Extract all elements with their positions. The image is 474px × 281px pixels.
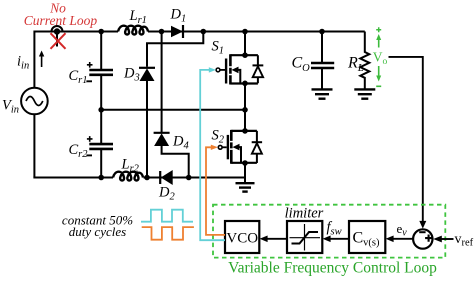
diode D4 [154, 133, 189, 178]
svg-text:VCO: VCO [226, 231, 258, 247]
body diode of S2 [252, 131, 262, 163]
node S2 top [242, 128, 248, 134]
arrow summing to Cv(s) [390, 238, 413, 240]
svg-text:duty cycles: duty cycles [69, 224, 126, 239]
body diode of S1 [253, 55, 264, 83]
polarity - Cr2 [86, 154, 92, 156]
transistor S1 (MOSFET) [216, 54, 258, 84]
diode D1 [171, 25, 183, 38]
polarity - Cr1 [86, 80, 92, 82]
node hop arc at no-loop stub [52, 26, 63, 31]
svg-text:Variable Frequency Control Loo: Variable Frequency Control Loop [228, 260, 437, 277]
wire midpoint to half-bridge [101, 109, 245, 111]
polarity + Cr2 [87, 136, 93, 142]
ground at RL [354, 89, 375, 98]
wire D4 cathode column [161, 32, 163, 133]
diode D3 [139, 68, 155, 178]
capacitor Cr1 [89, 32, 113, 145]
node S1 top [242, 52, 248, 58]
wire S1 drain [244, 32, 246, 56]
node S2 bottom [242, 160, 248, 166]
waveform cyan S1 [141, 210, 193, 222]
wire top rail left segment [34, 31, 118, 33]
arrow Cv(s) to limiter [327, 238, 349, 240]
wire jog from D1 cathode down to D3 cathode [147, 32, 203, 67]
arrow limiter to VCO [264, 238, 287, 240]
diode D2 [160, 170, 173, 185]
wire top rail middle segment [148, 31, 365, 33]
source Vin (AC) [21, 88, 48, 115]
capacitor Cr2 [89, 144, 113, 177]
node at D1 cathode jog [201, 29, 207, 35]
block Cv(s) [349, 221, 385, 253]
ground at Co [312, 89, 333, 98]
block VCO [225, 221, 259, 253]
transistor S2 (MOSFET) [218, 130, 257, 164]
node at caps midpoint [98, 107, 104, 113]
wire feedback from Vo to summing [389, 57, 423, 222]
node at Lr1/D1/D4 junction [159, 29, 165, 35]
node S1 bottom [242, 81, 248, 87]
polarity + Cr1 [87, 62, 93, 68]
block limiter [287, 221, 322, 253]
node at Cr2 bottom rail [98, 175, 104, 181]
inductor Lr2 [113, 172, 143, 181]
wire orange gate drive S2 [206, 147, 225, 235]
node at S1 drain on rail [242, 29, 248, 35]
red X mark [51, 33, 66, 49]
wire S2 source to ground [244, 163, 246, 183]
wire cyan gate drive S1 [200, 70, 225, 240]
node at Co top [319, 29, 325, 35]
arrow vref to summing [441, 238, 454, 240]
node no-loop stub [56, 32, 58, 47]
svg-text:Current Loop: Current Loop [24, 13, 98, 28]
node at D3 anode on rail [144, 175, 150, 181]
annotation Vo (green output voltage) [373, 27, 388, 86]
node at D4 anode on rail [186, 175, 192, 181]
wire S1 source to midpoint [244, 83, 246, 131]
waveform orange S2 [142, 227, 194, 240]
arrow i_in current [41, 54, 43, 67]
ground at S2 source [236, 183, 255, 191]
inductor Lr1 [118, 26, 148, 35]
svg-text:limiter: limiter [285, 206, 324, 222]
node at Cr1 top [98, 29, 104, 35]
wire bottom rail [33, 177, 245, 179]
capacitor Co [311, 32, 334, 90]
wire Vin left column [33, 31, 35, 178]
resistor RL [360, 32, 369, 90]
summing junction [413, 229, 432, 248]
node half-bridge midpoint [242, 107, 248, 113]
control loop dashed box [213, 205, 445, 258]
